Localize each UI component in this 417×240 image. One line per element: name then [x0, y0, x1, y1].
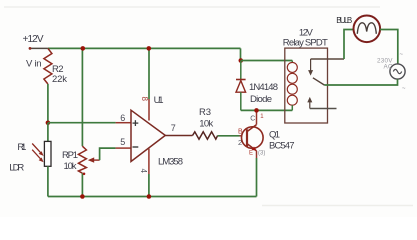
svg-text:AC: AC	[384, 63, 393, 70]
svg-text:~: ~	[402, 86, 406, 92]
wire: top +12V rail	[48, 47, 241, 49]
op-amp plus sign	[133, 120, 139, 126]
wire: bottom rail	[48, 196, 257, 198]
LDR light arrows	[32, 144, 43, 163]
photoresistor R1 LDR body	[44, 141, 51, 166]
wire: RP1 bottom to bottom rail	[81, 173, 83, 196]
relay lever	[313, 78, 325, 85]
transistor Q1	[242, 125, 264, 151]
svg-text:22k: 22k	[52, 74, 67, 85]
svg-text:U1: U1	[154, 95, 164, 106]
wire: emitter to bottom rail	[256, 158, 258, 197]
svg-text:Diode: Diode	[250, 94, 272, 105]
svg-text:LDR: LDR	[9, 163, 24, 174]
junction dot rail/RP1	[81, 46, 86, 51]
svg-text:R1: R1	[17, 142, 26, 153]
junction dot rail/pin8	[147, 46, 152, 51]
svg-text:4: 4	[139, 169, 148, 174]
svg-text:6: 6	[120, 113, 125, 123]
svg-text:1N4148: 1N4148	[249, 82, 278, 93]
junction dot collector node	[254, 108, 259, 113]
wire: rail to RP1 top	[81, 48, 83, 146]
svg-text:R2: R2	[52, 64, 64, 75]
resistor R2	[44, 48, 52, 84]
junction dot bottom pin4	[147, 194, 152, 199]
op-amp U1 triangle	[131, 110, 165, 161]
emitter pin stub	[256, 151, 258, 158]
lamp BULB	[354, 15, 381, 42]
wire: rail to pin8	[148, 48, 150, 99]
wire: R3 to base	[218, 135, 240, 137]
pin 6 stub	[116, 122, 131, 124]
svg-text:12V: 12V	[299, 27, 314, 38]
junction dot bottom RP1	[80, 194, 85, 199]
svg-text:RP1: RP1	[62, 150, 78, 161]
svg-text:(3): (3)	[258, 151, 265, 157]
svg-text:BC547: BC547	[269, 140, 295, 151]
svg-text:8: 8	[140, 97, 149, 102]
potentiometer RP1	[78, 146, 86, 173]
svg-text:C: C	[250, 115, 255, 122]
node A junction	[46, 121, 51, 126]
wire: pin4 to bottom rail	[148, 174, 150, 197]
node: +12V terminal	[29, 47, 32, 50]
wire: bulb to AC source	[380, 30, 398, 64]
svg-text:LM358: LM358	[158, 157, 183, 168]
wire: diode bottom to coil bottom	[241, 109, 292, 111]
svg-text:10k: 10k	[64, 161, 77, 172]
wire: +12V feed segment	[30, 47, 48, 49]
wire: rail drop to diode/relay node	[240, 48, 242, 60]
op-amp minus sign	[133, 146, 139, 148]
wire: top node to relay coil	[241, 60, 292, 62]
wire: NC stub	[310, 108, 337, 110]
svg-text:Relay SPDT: Relay SPDT	[283, 38, 328, 49]
svg-text:R3: R3	[199, 107, 211, 118]
pin 8 stub	[148, 99, 150, 121]
svg-text:10k: 10k	[199, 119, 213, 130]
relay K1 box	[285, 48, 328, 123]
svg-text:+12V: +12V	[23, 34, 44, 45]
base pin stub	[240, 135, 248, 137]
wire: wiper to pin5	[100, 148, 116, 160]
svg-text:E: E	[249, 151, 253, 157]
wire: AC bottom to relay common	[325, 79, 398, 85]
pin dot RP1 bottom	[83, 173, 86, 176]
wire: op-amp output to R3	[165, 135, 192, 137]
AC source 230V	[390, 64, 405, 79]
relay NC contact arrow	[307, 97, 312, 109]
pin 5 stub	[116, 147, 131, 149]
faint artifact line top	[4, 6, 380, 8]
svg-text:5: 5	[120, 137, 125, 147]
junction dot diode top node	[239, 58, 244, 63]
wire: LDR to bottom rail	[47, 166, 49, 196]
svg-text:Q1: Q1	[269, 129, 280, 140]
wire: R2 bottom to node A	[47, 84, 49, 123]
wire: NO contact to bulb	[311, 58, 344, 60]
svg-text:BULB: BULB	[336, 16, 352, 25]
wire: node A to pin6	[48, 122, 116, 124]
resistor R3	[193, 132, 218, 139]
svg-text:V in: V in	[26, 59, 42, 70]
RP1 wiper arrow	[88, 157, 100, 162]
faint artifact line bottom right	[262, 205, 413, 207]
diode D1 1N4148	[236, 61, 246, 111]
wire: node A to LDR	[47, 123, 49, 142]
svg-text:~: ~	[400, 52, 404, 58]
collector pin stub	[256, 110, 258, 124]
svg-text:7: 7	[171, 123, 176, 133]
relay coil	[287, 61, 297, 111]
pin 4 stub	[148, 149, 150, 174]
relay NO contact arrow	[308, 59, 313, 76]
